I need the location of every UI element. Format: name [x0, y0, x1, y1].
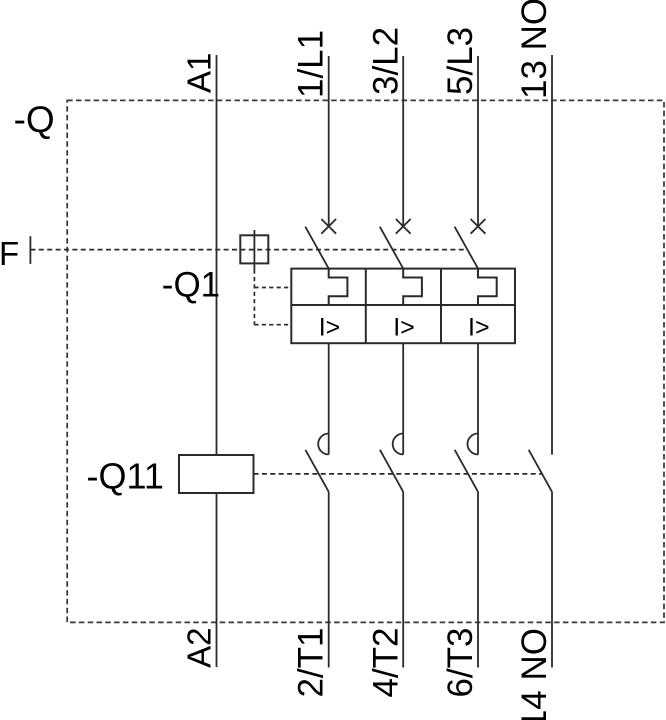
svg-text:I>: I> — [393, 314, 415, 342]
svg-text:4/T2: 4/T2 — [366, 628, 405, 698]
svg-text:13 NO: 13 NO — [515, 0, 554, 99]
svg-text:-Q1: -Q1 — [162, 266, 220, 305]
svg-text:F: F — [0, 235, 19, 272]
svg-text:A2: A2 — [181, 628, 218, 668]
svg-text:1/L1: 1/L1 — [292, 30, 331, 98]
svg-text:-Q: -Q — [14, 99, 55, 140]
svg-text:3/L2: 3/L2 — [366, 27, 405, 95]
svg-text:A1: A1 — [181, 53, 218, 93]
svg-text:I>: I> — [468, 314, 490, 342]
svg-text:2/T1: 2/T1 — [292, 628, 331, 698]
svg-text:14 NO: 14 NO — [515, 628, 554, 720]
svg-text:I>: I> — [319, 314, 341, 342]
svg-text:5/L3: 5/L3 — [441, 27, 480, 95]
svg-text:-Q11: -Q11 — [87, 456, 164, 497]
svg-text:6/T3: 6/T3 — [441, 628, 480, 698]
